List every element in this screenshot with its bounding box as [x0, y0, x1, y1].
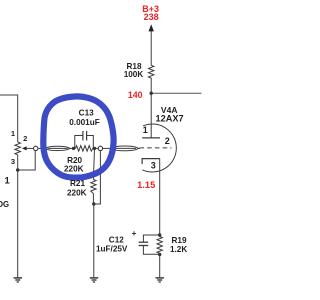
svg-text:1.15: 1.15 [137, 180, 155, 190]
svg-text:220K: 220K [67, 188, 87, 197]
svg-text:2: 2 [165, 136, 170, 146]
svg-text:238: 238 [144, 12, 159, 22]
svg-text:C13: C13 [79, 109, 94, 118]
svg-text:3: 3 [11, 157, 15, 166]
svg-text:+: + [132, 229, 137, 238]
svg-text:0.001uF: 0.001uF [69, 118, 100, 127]
svg-text:100K: 100K [124, 70, 144, 79]
svg-text:R19: R19 [171, 236, 186, 245]
svg-text:1uF/25V: 1uF/25V [96, 245, 128, 254]
svg-text:R21: R21 [70, 179, 85, 188]
svg-text:1: 1 [4, 176, 10, 187]
svg-text:1.2K: 1.2K [170, 245, 187, 254]
svg-text:12AX7: 12AX7 [156, 114, 184, 124]
svg-text:OG: OG [0, 200, 9, 209]
svg-text:1: 1 [11, 129, 16, 138]
svg-text:3: 3 [151, 161, 156, 171]
svg-text:1: 1 [143, 125, 148, 135]
svg-text:2: 2 [23, 134, 27, 143]
svg-text:C12: C12 [109, 236, 124, 245]
svg-text:140: 140 [128, 90, 143, 100]
svg-text:220K: 220K [64, 165, 84, 174]
